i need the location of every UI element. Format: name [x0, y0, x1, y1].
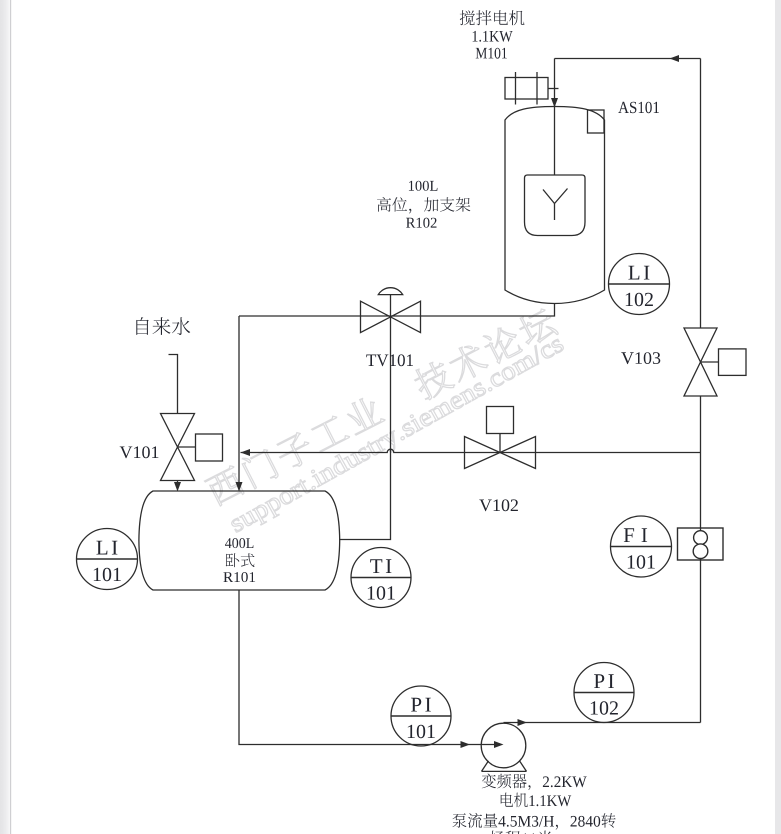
instrument TI101 — [351, 548, 411, 608]
wire: transfer pipe from drop node to tank R102 outlet — [239, 304, 555, 317]
flow arrow at pump center — [494, 741, 504, 748]
flow arrow left on recirculation pipe — [241, 449, 251, 456]
instrument LI101 — [77, 529, 138, 590]
wire: V101 outlet into tank R101 — [177, 481, 179, 485]
watermark — [203, 305, 567, 538]
label: tank R101 text block — [225, 538, 253, 548]
flow arrow on suction pipe — [461, 741, 471, 748]
label: tap water — [136, 317, 190, 335]
instrument PI102 — [574, 663, 634, 723]
flow arrow down into tank R102 — [551, 98, 558, 108]
wire: tap water inlet stub — [169, 355, 178, 414]
wire: tank R101 drain to pump suction — [239, 590, 501, 745]
label: pump/VFD text block — [482, 774, 587, 791]
flow element box (FE) with 8 symbol — [678, 528, 724, 560]
label AS101 — [618, 102, 659, 114]
pump P101 — [481, 723, 526, 768]
agitator window with Y impeller — [525, 175, 586, 236]
flow arrow down into tank R101 (left nozzle) — [174, 482, 181, 492]
tank R101 shell — [139, 491, 340, 590]
label: stirrer motor text block — [460, 10, 525, 25]
label V102 — [479, 499, 518, 511]
flow arrow on discharge pipe — [518, 719, 528, 726]
control valve TV101 — [361, 301, 421, 332]
instrument FI101 — [611, 516, 672, 577]
wire: recirculation pipe with line hop — [241, 449, 701, 452]
valve V103 — [684, 328, 717, 396]
valve V101 — [161, 414, 195, 481]
flow arrow left on top return pipe — [670, 55, 680, 62]
tank R102 shell — [505, 107, 605, 304]
wire: right riser lower segment — [700, 560, 702, 723]
wire: top return pipe from discharge riser to motor drop — [555, 58, 701, 60]
label V103 — [621, 352, 660, 364]
flow arrow down into tank R101 (right nozzle) — [236, 482, 243, 492]
wire: drop into tank R102 — [554, 59, 556, 101]
valve V102 — [465, 437, 536, 469]
agitator shaft — [554, 104, 556, 175]
label V101 — [120, 446, 159, 458]
instrument LI102 — [609, 254, 670, 315]
wire: pump discharge to right riser — [504, 722, 701, 724]
label TV101 — [366, 354, 413, 366]
level sensor AS101 box — [588, 110, 605, 133]
motor M101 — [505, 78, 548, 100]
wire: right riser upper segment — [700, 59, 702, 329]
instrument PI101 — [391, 686, 451, 746]
wire: right riser between V103 and flow element — [700, 396, 702, 528]
wire: TV101 branch down to tank R101 right nozzle — [339, 317, 391, 540]
wire: drop line into tank R101 — [238, 316, 240, 485]
label: tank R102 text block — [409, 181, 438, 191]
